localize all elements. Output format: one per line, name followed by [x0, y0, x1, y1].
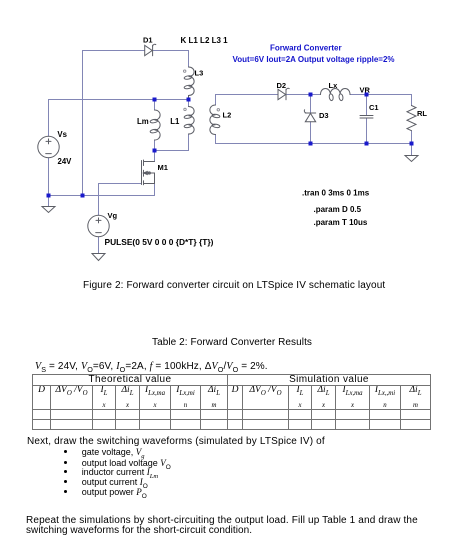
- inductor Lm: [150, 110, 160, 140]
- inductor Lx: [321, 89, 351, 101]
- svg-text:Lm: Lm: [137, 117, 149, 126]
- L2 phase dot: [217, 109, 219, 111]
- svg-text:Vs: Vs: [57, 130, 67, 139]
- inductor L1: [184, 107, 194, 135]
- svg-text:D1: D1: [143, 36, 153, 45]
- ground under Vg: [92, 254, 105, 261]
- svg-text:L1: L1: [170, 117, 180, 126]
- junction D1 anode ground node: [81, 194, 85, 198]
- wire Vg bottom lead to ground: [98, 237, 100, 254]
- voltage source Vs: [38, 136, 59, 157]
- junction node VR: [365, 93, 369, 97]
- wire C1 leads: [366, 95, 368, 144]
- results table: [32, 374, 431, 430]
- svg-text:.param T 10us: .param T 10us: [314, 218, 368, 227]
- svg-text:L3: L3: [195, 69, 204, 78]
- figure caption: [83, 280, 385, 291]
- wire main primary bus: [49, 99, 189, 101]
- wire VR node to RL: [367, 95, 412, 106]
- svg-text:M1: M1: [158, 163, 168, 172]
- capacitor C1: [360, 116, 373, 119]
- voltage source Vg: [88, 215, 109, 236]
- wire M1 source down: [154, 184, 156, 196]
- L3 phase dot: [184, 70, 186, 72]
- wire secondary top rail: [216, 95, 279, 106]
- L1 phase dot: [184, 108, 186, 110]
- wire Lx left lead: [311, 94, 321, 96]
- wire Lx right lead to VR node: [350, 94, 367, 96]
- ground under Vs: [42, 207, 55, 213]
- svg-text:Lx: Lx: [329, 81, 339, 90]
- wire L1 leads and bottom connection: [155, 100, 189, 151]
- diode D1: [145, 44, 156, 55]
- wire Vs top lead: [48, 100, 50, 137]
- wire ground rail: [49, 195, 155, 197]
- junction D2 cathode node: [309, 93, 313, 97]
- diode D2: [278, 88, 289, 99]
- wire gate from Vg: [99, 183, 142, 185]
- wire M1 drain to node: [154, 151, 156, 162]
- svg-text:K L1 L2 L3 1: K L1 L2 L3 1: [181, 36, 229, 45]
- junction C1 bottom node: [365, 142, 369, 146]
- wire D1 anode down to ground rail: [82, 51, 84, 196]
- wire RL bottom lead and ground lead: [411, 131, 413, 156]
- wire secondary bottom rail: [216, 135, 412, 144]
- svg-text:Vout=6V Iout=2A Output voltage: Vout=6V Iout=2A Output voltage ripple=2%: [233, 55, 395, 64]
- inductor L3: [184, 67, 194, 100]
- svg-text:PULSE(0 5V 0 0 0 {D*T} {T}): PULSE(0 5V 0 0 0 {D*T} {T}): [105, 237, 214, 247]
- resistor RL: [407, 106, 416, 131]
- wire Lm leads: [154, 100, 156, 151]
- junction M1 drain node: [153, 149, 157, 153]
- ground under RL: [405, 156, 418, 162]
- svg-text:24V: 24V: [58, 157, 73, 166]
- svg-text:RL: RL: [417, 109, 427, 118]
- wire Vs bottom lead to ground: [48, 158, 50, 207]
- junction Vs ground node: [47, 194, 51, 198]
- wire D2 cathode to node: [287, 94, 311, 96]
- svg-text:C1: C1: [369, 103, 379, 112]
- table caption: [152, 337, 312, 348]
- wire D3 bottom lead: [310, 122, 312, 144]
- inductor L2: [210, 105, 220, 135]
- svg-text:Forward Converter: Forward Converter: [270, 44, 342, 53]
- wire D3 top lead: [310, 95, 312, 113]
- paragraph: [27, 436, 325, 447]
- junction RL bottom node: [410, 142, 414, 146]
- svg-text:Vg: Vg: [108, 211, 118, 220]
- junction D3 anode bottom node: [309, 142, 313, 146]
- svg-text:D3: D3: [319, 111, 329, 120]
- conditions line: [35, 361, 268, 374]
- diode D3: [304, 110, 315, 122]
- svg-text:.tran 0 3ms 0 1ms: .tran 0 3ms 0 1ms: [302, 189, 370, 198]
- junction L1/L3 top node: [187, 98, 191, 102]
- svg-text:L2: L2: [223, 111, 232, 120]
- wire Vg top lead: [98, 184, 100, 216]
- nmos transistor M1: [142, 160, 155, 185]
- svg-text:.param D 0.5: .param D 0.5: [314, 205, 362, 214]
- wire D1 cathode to L3 top: [153, 51, 189, 68]
- svg-text:D2: D2: [277, 81, 287, 90]
- junction Lm top node: [153, 98, 157, 102]
- circuit schematic SVG: [0, 0, 474, 275]
- wire top-left to D1 anode: [83, 50, 145, 52]
